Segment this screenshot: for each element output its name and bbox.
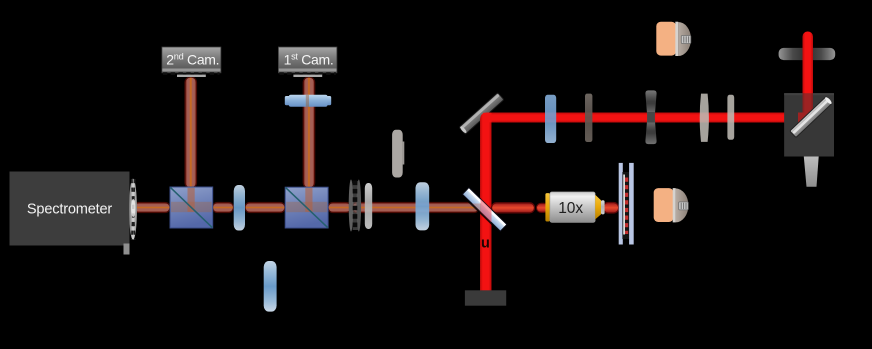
mirror box bbox=[784, 93, 834, 156]
wire: vertical beam cube2 to 1st camera bbox=[303, 77, 315, 188]
sample holder slide 1 bbox=[619, 163, 623, 245]
lens L1 (blue) bbox=[234, 185, 245, 231]
lens L5 on bright beam (blue) bbox=[545, 95, 556, 143]
lens below cube2 (blue, flipped out) bbox=[264, 261, 277, 312]
wire: red beam dash at objective bbox=[537, 203, 549, 212]
wire: beam spectrometer to cube1 bbox=[134, 203, 170, 213]
1st camera box bbox=[278, 47, 337, 77]
variable filter (hourglass) bbox=[645, 90, 656, 144]
wire: vertical beam cube1 to 2nd camera bbox=[185, 77, 197, 188]
svg-text:1st Cam.: 1st Cam. bbox=[284, 52, 334, 68]
beamsplitter plate BS3 bbox=[461, 188, 507, 234]
wire: muted red beam plate to objective bbox=[492, 203, 535, 213]
lens above beam line (gray, flipped out) bbox=[392, 130, 404, 178]
lens L7 on bright beam (gray) bbox=[700, 94, 709, 142]
turning mirror M1 bbox=[459, 93, 504, 135]
lens L2 (gray) bbox=[365, 183, 372, 229]
sample holder slide 2 bbox=[629, 163, 634, 245]
lens L4 (blue) bbox=[416, 182, 430, 230]
wire: bright beam vertical bbox=[480, 113, 492, 292]
wire: red beam objective to sample bbox=[603, 203, 619, 214]
lens above 1st camera beam (horizontal blue) bbox=[285, 95, 331, 107]
wire: beam iris to beamsplitter plate bbox=[352, 203, 479, 213]
wire: bright beam seen through plate bbox=[464, 192, 492, 222]
wire: bright beam horizontal top bbox=[490, 113, 810, 123]
lens L6 on bright beam (dark gray) bbox=[585, 94, 592, 142]
waveplate bar at top right bbox=[779, 48, 836, 60]
objective barrel 10x bbox=[545, 192, 604, 223]
lens L8 on bright beam (gray) bbox=[727, 95, 734, 140]
svg-text:10x: 10x bbox=[558, 200, 583, 217]
wire: bright beam into mirror box bbox=[798, 113, 810, 123]
beamsplitter cube BS1 bbox=[170, 187, 213, 228]
dimming of beams inside mirror box bbox=[784, 93, 834, 156]
spectrometer box bbox=[10, 172, 130, 246]
wire: beam cube1 to lens L1 bbox=[213, 203, 234, 213]
wire: beam cube2 to iris bbox=[328, 203, 351, 213]
iris aperture bbox=[349, 180, 361, 232]
entrance slit of spectrometer bbox=[129, 179, 137, 240]
wire: beam lens L1 to cube2 bbox=[245, 203, 285, 213]
2nd camera box bbox=[162, 47, 221, 77]
svg-text:Spectrometer: Spectrometer bbox=[27, 202, 113, 218]
beamsplitter cube BS2 bbox=[285, 187, 328, 228]
beam dump bbox=[465, 290, 506, 305]
mirror box mount tab bbox=[804, 157, 819, 187]
spectrometer mount tab bbox=[124, 244, 130, 255]
camera icon bottom (LED source) bbox=[654, 188, 689, 222]
wire: bright beam vertical at top right bbox=[803, 32, 814, 118]
camera icon top (LED source) bbox=[656, 22, 691, 56]
svg-text:u: u bbox=[481, 236, 490, 252]
mirror M2 in box bbox=[790, 96, 833, 137]
sample (red dashes) bbox=[622, 172, 629, 239]
